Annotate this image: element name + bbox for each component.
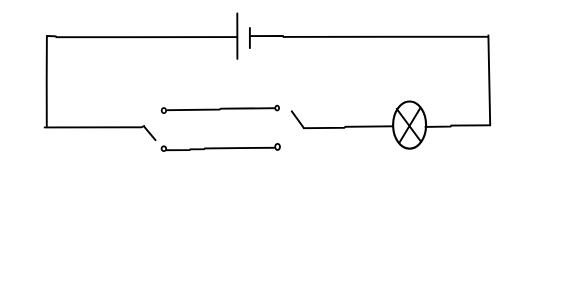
battery short plate (-) bbox=[249, 28, 251, 48]
wire switch S2 to lamp bbox=[304, 126, 393, 128]
wire lamp to right corner bbox=[425, 125, 490, 127]
wire between top contacts bbox=[168, 108, 275, 110]
wire top right horizontal bbox=[251, 35, 489, 38]
battery long plate (+) bbox=[236, 13, 238, 59]
switch S2 top contact bbox=[275, 106, 279, 111]
wire right vertical bbox=[488, 35, 490, 125]
switch S1 bottom contact bbox=[162, 146, 167, 151]
wire top left horizontal bbox=[47, 36, 237, 37]
switch S2 lever bbox=[292, 111, 304, 128]
lamp L1 X stroke 2 bbox=[399, 108, 420, 143]
lamp L1 X stroke 1 bbox=[397, 109, 421, 142]
switch S1 lever bbox=[145, 127, 156, 140]
lamp L1 bulb circle bbox=[393, 102, 426, 149]
switch S2 bottom contact bbox=[275, 144, 280, 150]
switch S1 top contact bbox=[162, 108, 166, 113]
wire left vertical bbox=[46, 36, 48, 126]
wire between bottom contacts bbox=[167, 148, 274, 150]
wire bottom left horizontal bbox=[45, 126, 145, 127]
